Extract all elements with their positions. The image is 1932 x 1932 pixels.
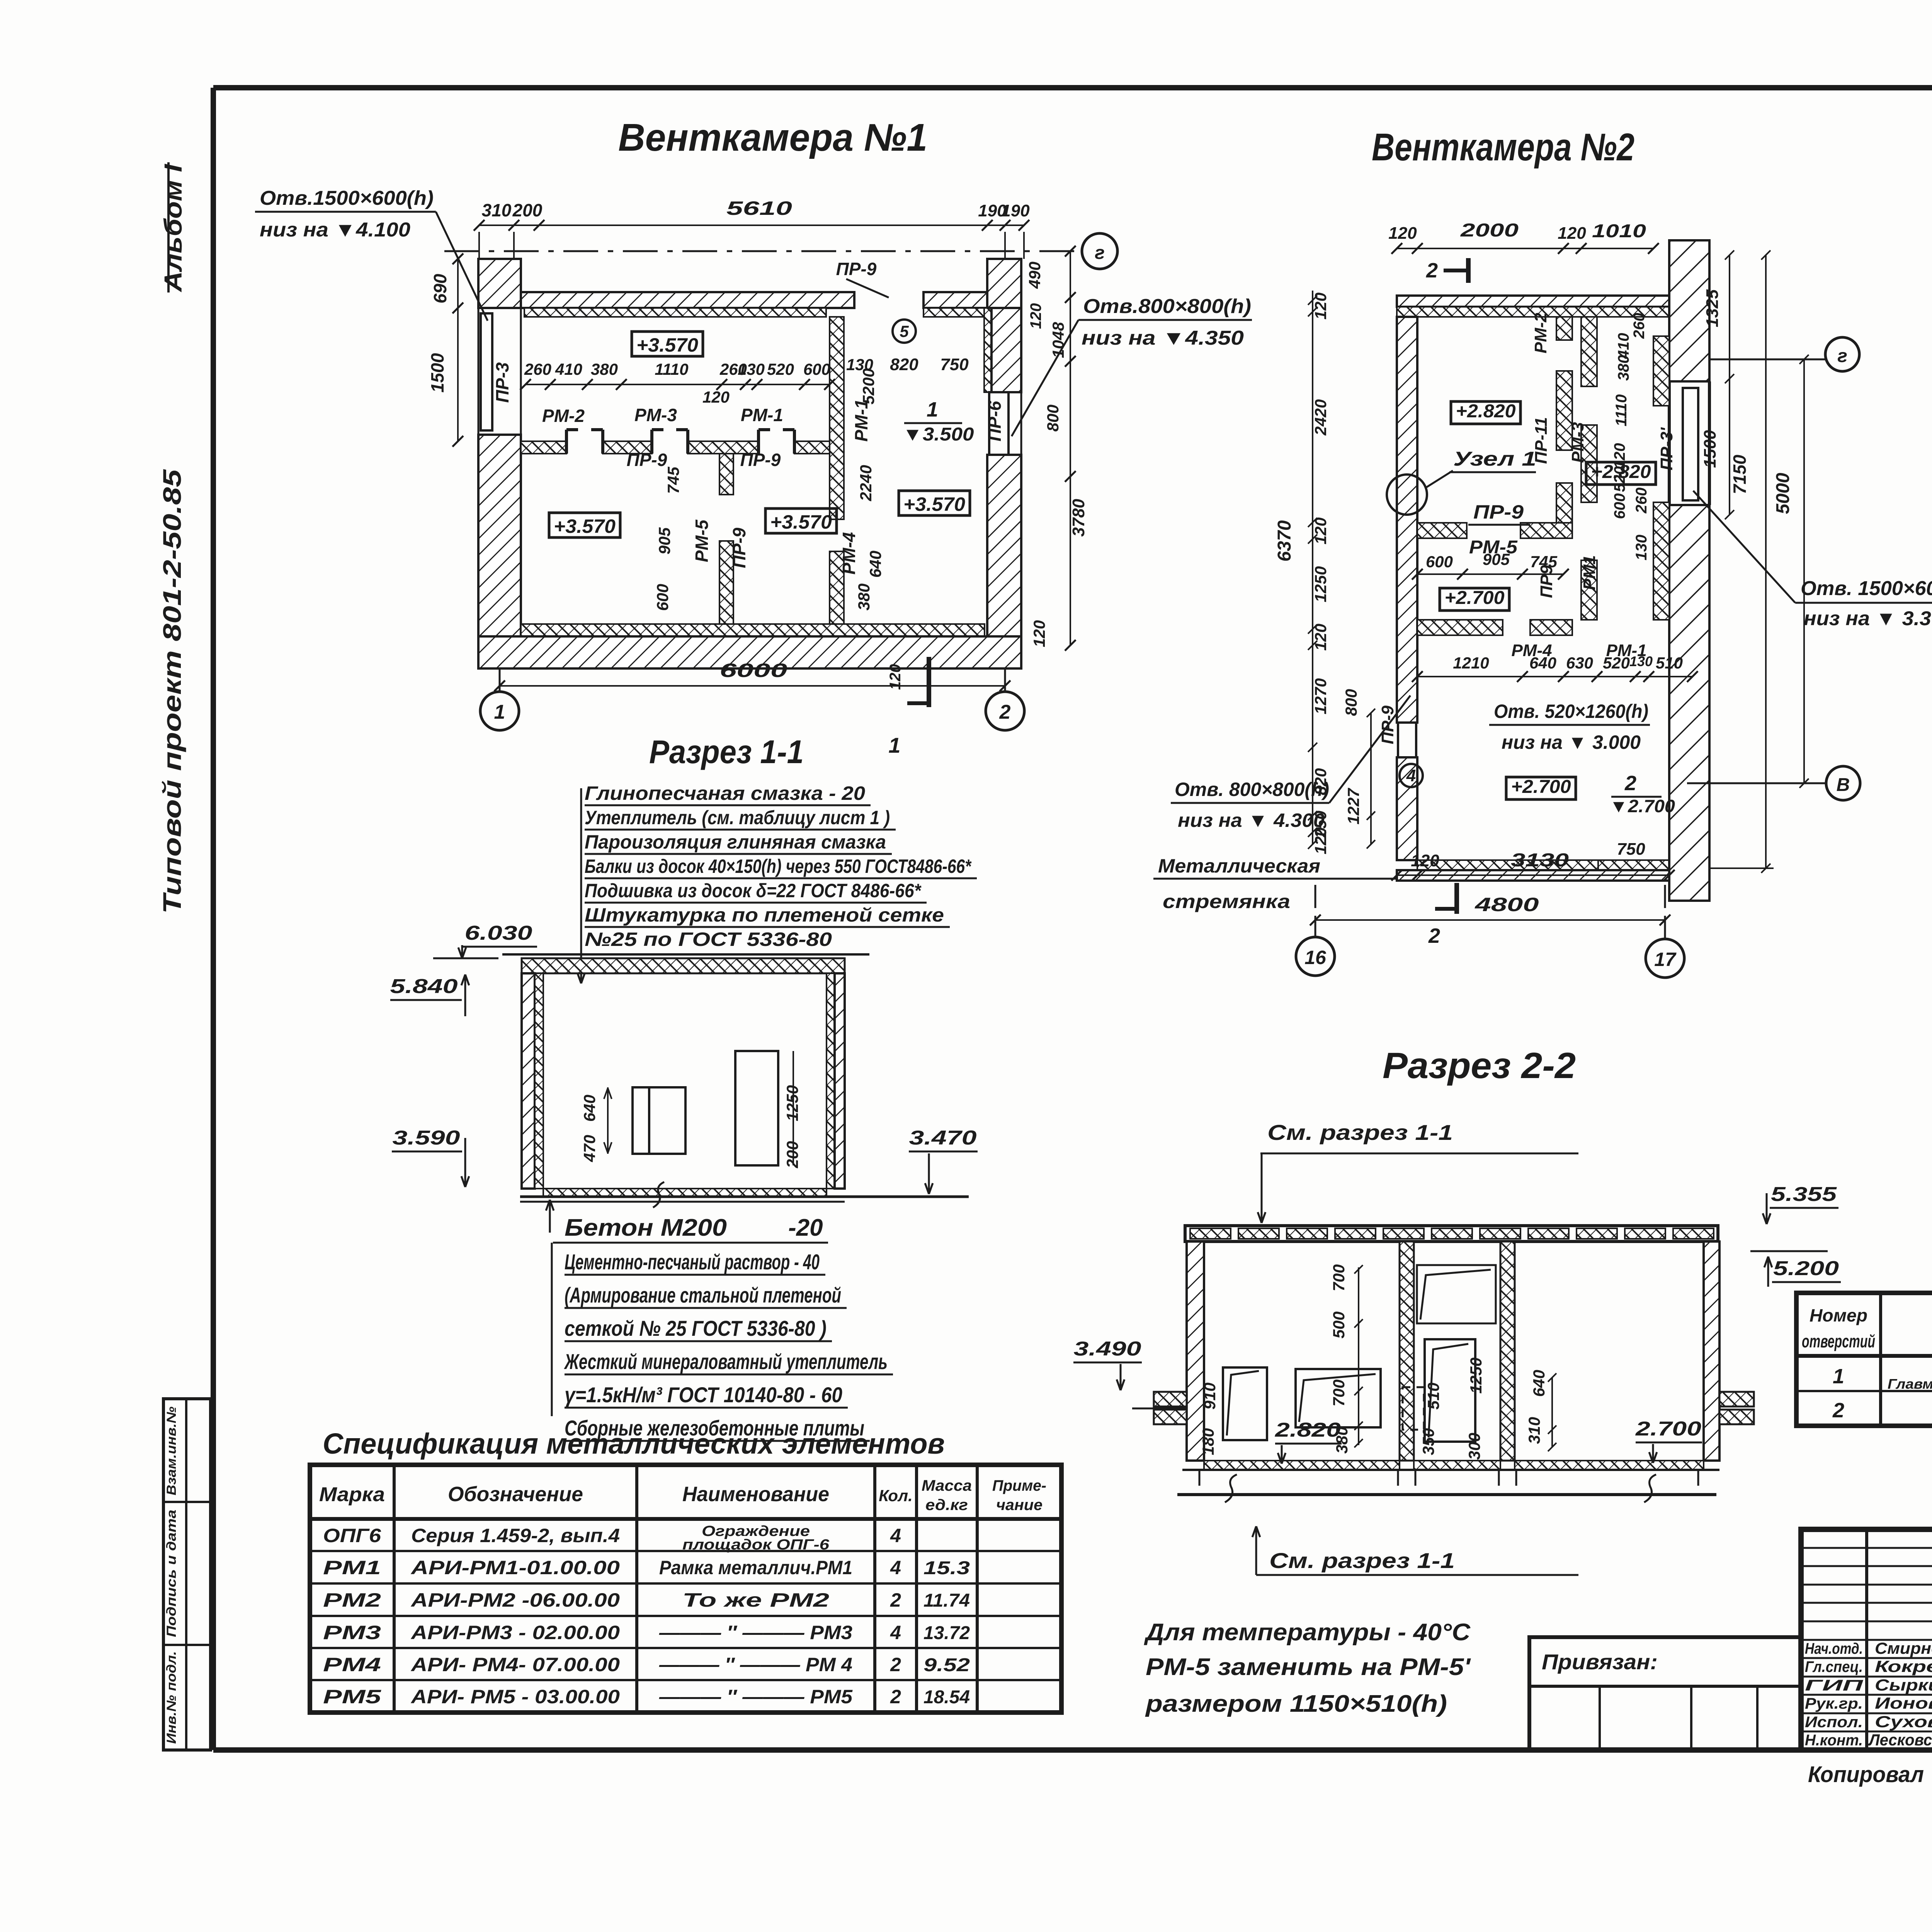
svg-text:Сухова: Сухова [1875,1713,1932,1731]
svg-text:4: 4 [890,1525,901,1546]
svg-text:905: 905 [1483,550,1510,568]
svg-text:120: 120 [702,388,730,406]
svg-text:низ на ▼4.350: низ на ▼4.350 [1082,327,1244,349]
svg-text:РМ-2: РМ-2 [542,406,585,426]
svg-text:200: 200 [512,200,543,220]
svg-text:120: 120 [1311,517,1330,544]
svg-text:Балки из досок 40×150(h) через: Балки из досок 40×150(h) через 550 ГОСТ8… [585,855,972,877]
svg-text:640: 640 [866,551,884,578]
svg-text:690: 690 [430,274,450,303]
svg-text:700: 700 [1330,1379,1348,1406]
svg-text:Гл.спец.: Гл.спец. [1805,1658,1863,1675]
svg-text:745: 745 [664,466,682,494]
svg-text:+3.570: +3.570 [770,511,832,533]
svg-text:5000: 5000 [1773,473,1793,514]
svg-text:5.355: 5.355 [1771,1183,1837,1206]
svg-text:490: 490 [1026,262,1044,289]
svg-text:РМ5: РМ5 [323,1686,382,1708]
svg-text:3.470: 3.470 [909,1127,977,1149]
svg-text:ОПГ6: ОПГ6 [323,1525,381,1546]
svg-text:905: 905 [655,527,673,554]
svg-text:4: 4 [890,1557,901,1578]
svg-text:Кол.: Кол. [879,1486,913,1505]
svg-text:13.72: 13.72 [923,1623,970,1643]
svg-text:стремянка: стремянка [1163,891,1290,912]
svg-text:200: 200 [783,1141,801,1168]
svg-text:2: 2 [1832,1399,1844,1422]
svg-text:Марка: Марка [319,1483,385,1506]
svg-text:180: 180 [1199,1428,1217,1455]
svg-text:Кокрев: Кокрев [1875,1657,1932,1675]
svg-text:Венткамера №2: Венткамера №2 [1372,126,1634,169]
svg-text:1210: 1210 [1453,654,1489,672]
svg-text:11.74: 11.74 [923,1590,970,1611]
svg-text:Пароизоляция глиняная смазка: Пароизоляция глиняная смазка [585,831,886,853]
svg-text:800: 800 [1044,405,1062,432]
svg-text:2.700: 2.700 [1635,1418,1701,1440]
svg-text:750: 750 [940,355,969,374]
svg-text:310: 310 [1525,1417,1543,1444]
svg-text:РМ-4: РМ-4 [839,532,859,575]
svg-text:260: 260 [1633,488,1650,514]
svg-text:2.820: 2.820 [1275,1419,1341,1441]
svg-text:См. разрез 1-1: См. разрез 1-1 [1269,1548,1455,1573]
svg-text:Бетон М200: Бетон М200 [565,1214,727,1241]
svg-text:380: 380 [591,360,618,378]
svg-text:ПР-9: ПР-9 [740,450,781,470]
svg-text:+3.570: +3.570 [636,334,698,356]
svg-text:3780: 3780 [1069,499,1088,537]
svg-text:площадок ОПГ-6: площадок ОПГ-6 [682,1537,830,1553]
svg-text:745: 745 [1530,553,1558,571]
svg-text:Наименование: Наименование [682,1483,829,1506]
svg-text:ПР-9: ПР-9 [836,259,877,279]
svg-text:4800: 4800 [1475,894,1539,915]
svg-text:-20: -20 [788,1214,823,1241]
svg-text:АРИ-РМ1-01.00.00: АРИ-РМ1-01.00.00 [410,1557,620,1578]
svg-text:1: 1 [888,733,900,757]
svg-text:РМ-1: РМ-1 [851,399,871,442]
svg-text:РМ-2: РМ-2 [1531,313,1550,354]
svg-text:1: 1 [494,701,505,723]
svg-text:Глинопесчаная смазка - 20: Глинопесчаная смазка - 20 [585,782,865,804]
svg-text:1500: 1500 [427,353,447,393]
svg-text:350: 350 [1419,1428,1437,1455]
svg-text:Разрез 2-2: Разрез 2-2 [1383,1045,1576,1086]
svg-text:630: 630 [1566,654,1593,672]
svg-text:РМ4: РМ4 [323,1654,381,1675]
svg-text:510: 510 [1424,1383,1442,1410]
svg-text:РМ-3: РМ-3 [1568,422,1587,463]
svg-text:1250: 1250 [1311,566,1330,602]
svg-text:Подпись и дата: Подпись и дата [164,1510,179,1637]
svg-text:ПР-9: ПР-9 [627,450,667,470]
svg-text:1010: 1010 [1592,221,1646,241]
svg-text:1048: 1048 [1049,322,1067,358]
svg-text:3.590: 3.590 [393,1127,460,1149]
svg-text:№25 по ГОСТ 5336-80: №25 по ГОСТ 5336-80 [585,929,832,950]
svg-text:РМ3: РМ3 [323,1622,381,1643]
svg-text:Узел 1: Узел 1 [1453,448,1536,470]
svg-text:190: 190 [1001,201,1030,220]
svg-text:ед.кг: ед.кг [925,1497,968,1514]
svg-text:Приме-: Приме- [992,1477,1046,1494]
svg-text:РМ2: РМ2 [323,1589,381,1611]
svg-text:Металлическая: Металлическая [1158,855,1320,877]
svg-text:5.200: 5.200 [1773,1257,1839,1280]
svg-text:2: 2 [890,1589,901,1611]
svg-text:3130: 3130 [1511,850,1569,871]
svg-text:ПР-6: ПР-6 [985,401,1005,441]
svg-text:1250: 1250 [1467,1357,1485,1393]
svg-text:1: 1 [1833,1365,1844,1388]
svg-text:510: 510 [1656,654,1683,672]
svg-text:2: 2 [1428,924,1440,947]
svg-text:Отв. 800×800(h): Отв. 800×800(h) [1175,779,1329,800]
svg-text:г: г [1095,243,1105,263]
svg-text:РМ-1: РМ-1 [741,405,783,425]
svg-text:ПР-9: ПР-9 [1473,501,1524,523]
svg-text:5200: 5200 [859,368,878,404]
svg-text:Жесткий минераловатный утеплит: Жесткий минераловатный утеплитель [564,1349,888,1374]
svg-text:низ на ▼ 3.300: низ на ▼ 3.300 [1804,607,1932,630]
svg-text:120: 120 [1027,303,1044,329]
svg-text:АРИ- РМ5 - 03.00.00: АРИ- РМ5 - 03.00.00 [410,1686,620,1708]
svg-text:820: 820 [890,355,918,374]
svg-text:700: 700 [1330,1264,1348,1291]
svg-text:2: 2 [1426,259,1438,282]
svg-text:(Армирование стальной плетеной: (Армирование стальной плетеной [565,1283,841,1307]
svg-text:Венткамера №1: Венткамера №1 [618,116,927,159]
svg-text:г: г [1837,346,1847,366]
svg-text:1500: 1500 [1701,430,1719,468]
svg-text:2240: 2240 [857,465,875,501]
svg-text:520: 520 [1603,654,1630,672]
svg-text:4: 4 [1406,766,1416,785]
svg-text:Типовой проект 801-2-50.85: Типовой проект 801-2-50.85 [158,469,186,914]
svg-text:РМ1: РМ1 [323,1557,381,1578]
svg-text:17: 17 [1654,949,1677,970]
svg-text:АРИ-РМ2 -06.00.00: АРИ-РМ2 -06.00.00 [410,1589,620,1611]
svg-text:6000: 6000 [720,660,787,681]
svg-text:ПР-3': ПР-3' [1657,427,1676,470]
svg-text:2: 2 [890,1686,901,1708]
svg-text:Главмонтажавтоматика 1971г: Главмонтажавтоматика 1971г [1888,1376,1932,1392]
svg-text:——— ″ ——— РМ 4: ——— ″ ——— РМ 4 [659,1654,852,1675]
svg-text:5610: 5610 [726,197,792,219]
svg-text:16: 16 [1304,947,1327,968]
svg-text:Отв. 520×1260(h): Отв. 520×1260(h) [1494,701,1648,722]
svg-text:Масса: Масса [922,1477,972,1494]
svg-text:РМ-5: РМ-5 [692,519,712,562]
svg-text:+2.700: +2.700 [1445,588,1505,608]
svg-text:130: 130 [1629,653,1653,669]
svg-text:Альбом I: Альбом I [159,164,187,293]
svg-text:Отв.1500×600(h): Отв.1500×600(h) [260,187,434,209]
svg-text:Нач.отд.: Нач.отд. [1805,1640,1863,1657]
svg-text:470: 470 [580,1135,599,1162]
svg-text:750: 750 [1617,840,1645,859]
svg-text:▼2.700: ▼2.700 [1609,796,1675,816]
svg-text:18.54: 18.54 [923,1687,970,1708]
svg-text:2: 2 [999,701,1011,723]
svg-text:120: 120 [1030,620,1048,647]
svg-text:Для температуры - 40°С: Для температуры - 40°С [1144,1619,1471,1646]
svg-text:Отв.800×800(h): Отв.800×800(h) [1083,295,1251,318]
svg-text:ПР-11: ПР-11 [1532,417,1551,464]
svg-text:380: 380 [1615,355,1632,381]
svg-text:2000: 2000 [1460,220,1519,241]
svg-text:АРИ-РМ3 - 02.00.00: АРИ-РМ3 - 02.00.00 [410,1622,620,1643]
svg-text:3.490: 3.490 [1074,1338,1141,1360]
svg-text:γ=1.5кН/м³ ГОСТ 10140-80: γ=1.5кН/м³ ГОСТ 10140-80 - 60 [565,1383,842,1407]
svg-text:АРИ- РМ4- 07.00.00: АРИ- РМ4- 07.00.00 [410,1654,620,1675]
svg-text:120: 120 [1611,443,1628,469]
svg-text:Привязан:: Привязан: [1542,1650,1658,1674]
svg-text:Спецификация металлических э: Спецификация металлических элементов [323,1427,945,1460]
svg-text:120: 120 [887,664,904,690]
svg-text:520: 520 [1611,466,1628,492]
svg-text:600: 600 [1611,493,1628,519]
svg-text:260: 260 [524,360,551,378]
svg-text:Рук.гр.: Рук.гр. [1805,1695,1863,1712]
svg-text:Подшивка из досок δ=22 ГОСТ: Подшивка из досок δ=22 ГОСТ 8486-66* [585,880,922,901]
svg-text:1270: 1270 [1311,678,1330,714]
svg-text:Цементно-песчаный раствор - 40: Цементно-песчаный раствор - 40 [565,1250,820,1274]
svg-text:Лесковская: Лесковская [1868,1731,1932,1749]
svg-text:640: 640 [1529,654,1556,672]
svg-text:1110: 1110 [655,360,688,378]
svg-text:130: 130 [1633,535,1650,561]
svg-text:——— ″ ——— РМ5: ——— ″ ——— РМ5 [659,1686,853,1708]
svg-text:Взам.инв.№: Взам.инв.№ [164,1406,179,1495]
svg-text:310: 310 [482,200,512,220]
svg-text:2: 2 [890,1654,901,1675]
svg-text:сеткой № 25 ГОСТ 5336-80 ): сеткой № 25 ГОСТ 5336-80 ) [565,1316,827,1340]
svg-text:РМ-3: РМ-3 [634,405,677,425]
svg-text:1325: 1325 [1703,289,1722,327]
svg-text:260: 260 [1631,313,1648,339]
svg-text:2: 2 [1624,772,1636,795]
svg-text:Испол.: Испол. [1805,1714,1863,1731]
svg-text:5.840: 5.840 [390,975,458,998]
svg-text:7150: 7150 [1730,454,1750,494]
svg-text:600: 600 [803,360,830,378]
svg-text:РМ1: РМ1 [1580,555,1599,590]
svg-text:1227: 1227 [1344,788,1362,825]
svg-text:ПР-9: ПР-9 [729,527,749,568]
svg-text:Смирнов: Смирнов [1875,1639,1932,1657]
svg-text:Номер: Номер [1810,1305,1867,1325]
svg-text:6370: 6370 [1274,520,1295,561]
svg-text:Н.конт.: Н.конт. [1805,1732,1863,1749]
svg-text:1250: 1250 [783,1085,801,1121]
svg-text:Штукатурка по плетеной сетке: Штукатурка по плетеной сетке [585,904,944,926]
svg-text:низ на ▼ 3.000: низ на ▼ 3.000 [1502,731,1641,753]
svg-text:4: 4 [890,1622,901,1643]
svg-text:120: 120 [1311,624,1330,651]
svg-text:1110: 1110 [1613,394,1630,426]
svg-text:600: 600 [1426,553,1453,571]
svg-text:600: 600 [653,584,672,611]
svg-text:▼3.500: ▼3.500 [903,424,974,445]
svg-text:Разрез 1-1: Разрез 1-1 [649,734,804,770]
svg-text:6.030: 6.030 [465,922,532,944]
svg-text:отверстий: отверстий [1802,1331,1875,1351]
svg-text:120: 120 [1311,293,1330,320]
svg-text:120: 120 [1311,827,1330,854]
svg-text:ГИП: ГИП [1805,1677,1864,1694]
svg-text:Обозначение: Обозначение [448,1483,583,1506]
svg-text:500: 500 [1330,1311,1348,1338]
svg-text:Сыркин: Сыркин [1875,1676,1932,1694]
svg-text:+2.700: +2.700 [1511,777,1571,797]
svg-text:1: 1 [927,398,938,421]
svg-text:120: 120 [1388,224,1417,243]
svg-text:+3.570: +3.570 [554,515,616,537]
svg-text:640: 640 [580,1095,599,1122]
svg-text:380: 380 [855,583,873,611]
svg-text:Копировал: Копировал [1808,1762,1924,1787]
svg-text:Отв. 1500×600(h): Отв. 1500×600(h) [1801,577,1932,600]
svg-text:9.52: 9.52 [923,1655,970,1675]
svg-text:5: 5 [900,322,909,340]
svg-text:То же РМ2: То же РМ2 [682,1589,829,1611]
svg-text:640: 640 [1530,1370,1548,1397]
svg-text:+2.820: +2.820 [1456,401,1516,422]
svg-text:Рамка металлич.РМ1: Рамка металлич.РМ1 [659,1557,852,1578]
svg-text:300: 300 [1465,1433,1483,1460]
svg-text:РМ-5 заменить на РМ-5': РМ-5 заменить на РМ-5' [1146,1654,1471,1680]
svg-text:800: 800 [1342,689,1360,716]
svg-text:низ на ▼4.100: низ на ▼4.100 [260,219,410,241]
svg-text:120: 120 [1558,224,1586,243]
svg-text:В: В [1837,775,1850,795]
svg-text:120: 120 [1411,851,1439,870]
svg-text:910: 910 [1201,1383,1219,1410]
svg-text:130: 130 [738,360,765,378]
svg-text:15.3: 15.3 [923,1558,970,1578]
svg-text:Утеплитель (см. таблицу лист 1: Утеплитель (см. таблицу лист 1 ) [585,807,890,828]
svg-text:Инв.№ подл.: Инв.№ подл. [164,1651,179,1744]
svg-text:Ионова: Ионова [1875,1694,1932,1712]
svg-text:чание: чание [996,1497,1043,1514]
svg-text:——— ″ ——— РМ3: ——— ″ ——— РМ3 [659,1622,852,1643]
svg-text:См. разрез 1-1: См. разрез 1-1 [1267,1120,1453,1145]
svg-text:Серия 1.459-2, вып.4: Серия 1.459-2, вып.4 [411,1525,620,1546]
svg-text:низ на ▼ 4.300: низ на ▼ 4.300 [1178,810,1325,831]
svg-text:размером 1150×510(h): размером 1150×510(h) [1145,1690,1447,1717]
svg-text:ПР-3: ПР-3 [492,362,512,403]
svg-text:410: 410 [555,360,582,378]
svg-text:+3.570: +3.570 [903,493,965,515]
svg-text:2420: 2420 [1311,399,1330,435]
svg-text:520: 520 [767,360,794,378]
